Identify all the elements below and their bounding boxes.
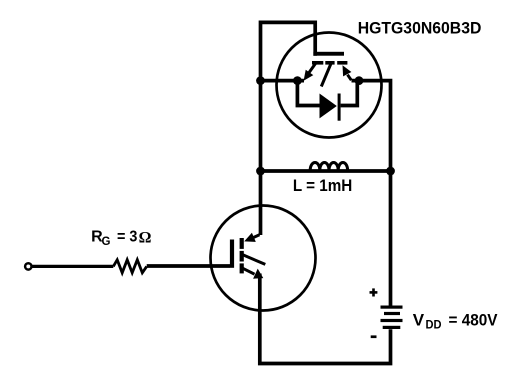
U1 body slash — [321, 64, 331, 87]
diode D1 triangle — [320, 94, 337, 119]
wire: top node row right segment + right vertical down to battery — [352, 81, 391, 306]
wire: resistor to Q1 gate — [147, 264, 230, 268]
svg-text:HGTG30N60B3D: HGTG30N60B3D — [358, 19, 482, 38]
inductor row wire — [261, 169, 391, 173]
node J1 (left rail / node row junction) — [256, 76, 265, 85]
Q1 collector line + arrow (into channel) — [251, 235, 260, 239]
U1 channel dashes — [312, 61, 323, 65]
svg-text:L = 1mH: L = 1mH — [293, 176, 352, 195]
U1 collector line + arrow (into channel) — [348, 75, 352, 81]
svg-text:= 3: = 3 — [117, 229, 137, 246]
anti-parallel diode D1 loop wiring — [297, 81, 357, 106]
IGBT U1 (upper device, HGTG30N60B3D) circle — [277, 33, 382, 138]
svg-text:G: G — [102, 236, 111, 248]
battery - sign — [371, 335, 377, 338]
wire: gate loop + left rail (top corner, gate lead of U1, left vertical) — [261, 22, 316, 235]
node: U1 collector node — [355, 76, 364, 85]
wire: top node row left segment — [261, 79, 305, 83]
inductor L humps — [310, 163, 347, 171]
svg-text:Ω: Ω — [139, 229, 152, 246]
U1 gate bar — [313, 52, 344, 56]
Q1 body slash — [243, 255, 265, 265]
diode D1 cathode bar — [338, 94, 341, 121]
battery + sign — [370, 291, 378, 294]
IGBT Q1 (lower device, DUT) circle — [211, 206, 316, 311]
svg-text:= 480V: = 480V — [449, 311, 499, 330]
battery VDD plates — [381, 306, 403, 309]
U1 emitter line + arrow (to left node) — [308, 64, 316, 75]
svg-text:DD: DD — [426, 318, 442, 332]
input terminal (open circle) — [25, 263, 31, 269]
Q1 emitter arrow (up, on emitter lead) — [253, 269, 263, 279]
Q1 channel dashes — [240, 238, 244, 249]
wire: input to resistor — [32, 265, 113, 268]
svg-text:V: V — [413, 311, 425, 330]
resistor RG zigzag — [113, 260, 146, 273]
node: inductor row left junction — [256, 167, 265, 176]
Q1 emitter line — [243, 268, 255, 274]
Q1 gate bar — [230, 240, 234, 268]
node: inductor row right junction — [386, 167, 395, 176]
node: U1 emitter node — [293, 76, 302, 85]
wire: Q1 emitter down, bottom rail, up to battery minus — [260, 274, 391, 364]
